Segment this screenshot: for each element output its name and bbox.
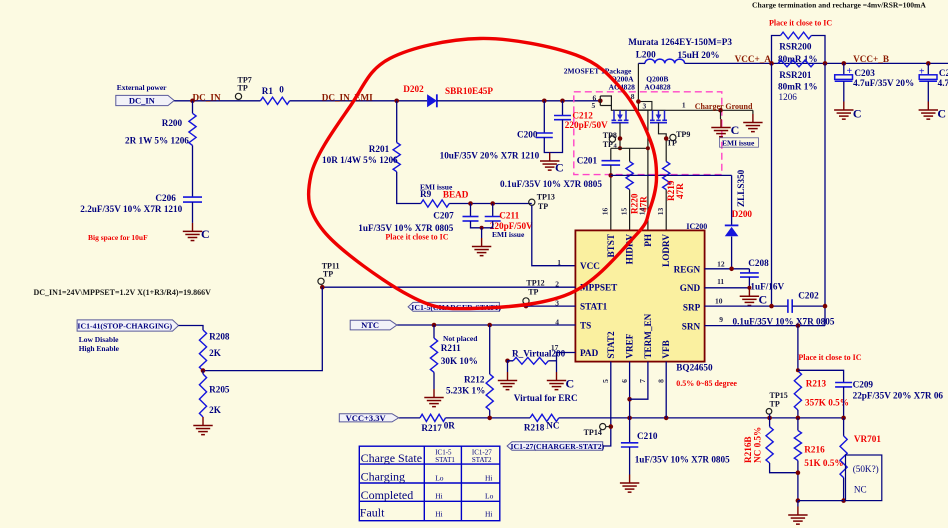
svg-text:R9: R9 (420, 189, 432, 199)
wire R9 to TP13 corner (449, 203, 532, 205)
wire R218 to FB node (559, 417, 844, 419)
table charge state (359, 446, 500, 521)
svg-text:Lo: Lo (435, 473, 444, 482)
junction C211 tap (490, 201, 495, 206)
wire D202 to MOSFETs (437, 100, 600, 102)
svg-text:R213: R213 (806, 379, 827, 389)
resistor R201 (396, 101, 398, 143)
svg-text:EMI issue: EMI issue (492, 230, 525, 239)
wire R217-R218 (446, 417, 531, 419)
wire R213 to C209 (798, 370, 844, 382)
junction TP15/FB (767, 416, 772, 421)
svg-text:0.5% 0~85 degree: 0.5% 0~85 degree (676, 379, 737, 388)
svg-text:Charge termination and rechar: Charge termination and recharge =4mv/RSR… (752, 1, 926, 10)
svg-text:16: 16 (601, 208, 610, 216)
svg-text:BTST: BTST (606, 234, 616, 258)
wire MPPSET (322, 286, 575, 288)
junction R211 (432, 323, 437, 328)
junction input to FET (598, 99, 603, 104)
transistor Q200B (652, 109, 666, 111)
svg-text:STAT1: STAT1 (580, 302, 608, 312)
svg-text:C203: C203 (854, 68, 875, 78)
resistor RSR201 (in line) (778, 60, 814, 67)
svg-text:Virtual for ERC: Virtual for ERC (514, 393, 578, 403)
junction C207 tap (468, 201, 473, 206)
ground C200/C212 net C (544, 120, 562, 153)
wire BTST column pin16 (610, 148, 612, 160)
svg-text:C201: C201 (577, 155, 598, 165)
svg-text:13: 13 (656, 208, 665, 216)
svg-text:TP9: TP9 (676, 130, 690, 139)
svg-text:Hi: Hi (485, 510, 493, 519)
svg-text:TP: TP (538, 202, 548, 211)
svg-text:Completed: Completed (361, 488, 414, 502)
svg-text:VCC+_A: VCC+_A (735, 54, 772, 64)
wire L200 left (638, 62, 645, 64)
wire TP11 down to divider (203, 287, 322, 370)
resistor R1 (260, 97, 289, 104)
svg-text:15: 15 (619, 208, 628, 216)
svg-text:VREF: VREF (625, 333, 635, 358)
resistor R218 (530, 414, 559, 421)
svg-text:TP: TP (603, 140, 613, 149)
pin 3 box (638, 102, 652, 111)
svg-text:Murata 1264EY-150M=P3: Murata 1264EY-150M=P3 (628, 37, 732, 47)
wire VFB pin8 (665, 362, 667, 418)
capacitor C204 (polarized, edge) (926, 61, 931, 66)
wire SRP (705, 305, 788, 307)
wire Q200B to Charger Ground pin 1 (666, 109, 753, 111)
wire R200 to C206 (192, 145, 194, 197)
wire DC_IN to R1 (174, 100, 260, 102)
junction ground tap (718, 108, 723, 113)
svg-text:NC: NC (546, 421, 559, 431)
ground earth EMI (752, 110, 754, 114)
svg-text:R200: R200 (162, 118, 183, 128)
svg-text:R211: R211 (441, 343, 461, 353)
svg-text:EMI issue: EMI issue (722, 138, 755, 147)
svg-text:C210: C210 (637, 431, 658, 441)
junction R216B/R216 (796, 470, 801, 475)
svg-text:Charger Ground: Charger Ground (695, 102, 753, 111)
wire R201 to R9 (397, 172, 421, 204)
junction D200/REGN (729, 267, 734, 272)
testpoint TP9 (670, 134, 676, 140)
svg-text:(50K?): (50K?) (853, 464, 879, 474)
ground FB (797, 507, 799, 516)
junction sense B/C202 (823, 304, 828, 309)
capacitor C207 (470, 204, 472, 217)
svg-text:357K 0.5%: 357K 0.5% (805, 397, 849, 407)
svg-text:10uF/35V 20% X7R 1210: 10uF/35V 20% X7R 1210 (440, 151, 540, 161)
transistor Q200A (613, 109, 627, 111)
capacitor C200 (543, 101, 545, 133)
svg-text:R_Virtual200: R_Virtual200 (512, 349, 566, 359)
svg-text:TP: TP (323, 269, 333, 278)
junction VCC+_A / RSR left (769, 61, 774, 66)
wire TP13 to VCC pin (532, 205, 576, 265)
svg-text:14: 14 (638, 208, 647, 216)
svg-text:DC_IN: DC_IN (193, 92, 221, 102)
svg-text:NC 0.5%: NC 0.5% (752, 427, 762, 463)
svg-text:AO4828: AO4828 (644, 83, 671, 92)
wire STAT2 pin5 to port (603, 362, 611, 446)
resistor R216B (769, 414, 771, 427)
svg-text:TP: TP (528, 287, 538, 296)
port IC1-5(CHARGER-STAT1) (408, 302, 499, 311)
junction VCC+_B / RSR right (823, 61, 828, 66)
junction sense A/SRP (769, 304, 774, 309)
svg-text:TP13: TP13 (537, 193, 555, 202)
svg-text:DC_IN: DC_IN (129, 96, 156, 106)
svg-text:C: C (201, 227, 210, 241)
potentiometer VR701 (843, 418, 845, 436)
ground PAD net C (556, 372, 558, 381)
capacitor C201 (602, 160, 621, 162)
svg-text:2K: 2K (209, 348, 222, 358)
svg-text:VCC+3.3V: VCC+3.3V (346, 413, 387, 423)
svg-text:10R 1/4W 5% 1206: 10R 1/4W 5% 1206 (322, 155, 398, 165)
capacitor C212 (562, 101, 564, 116)
svg-text:NC: NC (854, 484, 867, 494)
svg-text:R218: R218 (524, 422, 545, 432)
svg-text:TERM_EN: TERM_EN (643, 313, 653, 358)
wire drain interconnect (627, 109, 652, 111)
svg-text:47R: 47R (675, 183, 685, 199)
junction R213/R216 (796, 416, 801, 421)
wire bottom FB ground (798, 500, 844, 502)
svg-text:TP: TP (238, 84, 248, 93)
svg-text:STAT1: STAT1 (435, 456, 455, 464)
svg-text:10: 10 (715, 296, 723, 305)
port IC1-41(STOP-CHARGING) (77, 320, 178, 331)
svg-text:C: C (731, 123, 740, 137)
ground C210 (629, 475, 631, 484)
svg-text:8: 8 (656, 379, 665, 383)
diode D202 SBR10E45P (427, 94, 437, 107)
svg-text:R201: R201 (369, 144, 390, 154)
wire PAD (557, 353, 576, 373)
svg-text:SRP: SRP (683, 302, 701, 312)
svg-text:C200: C200 (517, 129, 538, 139)
svg-text:RSR201: RSR201 (779, 70, 812, 80)
svg-text:1uF/16V: 1uF/16V (750, 281, 784, 291)
port VCC+3.3V (339, 414, 398, 422)
svg-text:DC_IN_EMI: DC_IN_EMI (322, 92, 373, 102)
svg-text:IC1-41(STOP-CHARGING): IC1-41(STOP-CHARGING) (77, 322, 172, 331)
svg-text:2R 1W 5% 1206: 2R 1W 5% 1206 (125, 136, 189, 146)
wire Q200A source (619, 123, 621, 149)
wire LODRV column pin13 + resistor R219 (663, 162, 670, 190)
wire HIDRV column pin15 + resistor R220 (629, 148, 631, 161)
svg-text:4.7: 4.7 (938, 78, 948, 88)
svg-text:TS: TS (580, 321, 591, 331)
junction DC_IN/R200 (190, 99, 195, 104)
wire VCC+_B sense down (824, 63, 826, 325)
svg-text:C: C (566, 377, 575, 391)
junction C212 tap (560, 99, 565, 104)
resistor R208 (199, 330, 206, 371)
ground R211 (433, 372, 435, 389)
svg-text:12: 12 (717, 259, 725, 268)
resistor R205 (202, 371, 204, 374)
svg-text:C: C (853, 107, 862, 121)
wire BTST to D200 (611, 174, 732, 176)
svg-text:TP12: TP12 (526, 279, 544, 288)
junction VREF/FB (627, 416, 632, 421)
svg-text:Hi: Hi (435, 510, 443, 519)
wire TERM_EN pin7 (630, 362, 648, 400)
svg-text:C207: C207 (433, 211, 454, 221)
wire L200 drop (637, 63, 639, 101)
svg-text:BQ24650: BQ24650 (676, 363, 713, 373)
svg-text:TP: TP (667, 139, 677, 148)
svg-text:TP14: TP14 (584, 428, 602, 437)
wire GND pin (705, 287, 750, 289)
junction C200 tap (542, 99, 547, 104)
wire Q200B source (659, 123, 667, 162)
svg-text:VFB: VFB (661, 340, 671, 358)
svg-text:30K 10%: 30K 10% (441, 356, 478, 366)
svg-text:11: 11 (717, 277, 724, 286)
port DC_IN (116, 95, 174, 105)
svg-text:0.1uF/35V 10% X7R 0805: 0.1uF/35V 10% X7R 0805 (733, 316, 835, 326)
resistor R213 (794, 371, 801, 410)
svg-text:220pF/50V: 220pF/50V (565, 120, 608, 130)
resistor RSR200 (772, 36, 781, 64)
wire FB rail (399, 417, 420, 419)
svg-text:1uF/35V 10% X7R 0805: 1uF/35V 10% X7R 0805 (358, 223, 453, 233)
svg-text:C208: C208 (748, 258, 769, 268)
svg-text:VCC+_B: VCC+_B (853, 54, 889, 64)
svg-text:R217: R217 (421, 423, 442, 433)
testpoint TP8 (609, 136, 615, 142)
svg-text:1206: 1206 (779, 92, 798, 102)
wire STAT1 (499, 305, 575, 307)
wire REGN (705, 268, 750, 270)
ground C207/C211 (471, 221, 493, 228)
svg-text:C: C (759, 293, 768, 307)
svg-text:SBR10E45P: SBR10E45P (445, 86, 493, 96)
junction C209/VR701 (841, 416, 846, 421)
testpoint TP13 (529, 199, 535, 205)
svg-text:VR701: VR701 (854, 434, 881, 444)
svg-text:9: 9 (719, 315, 723, 324)
resistor R216 (797, 418, 799, 431)
svg-text:External power: External power (117, 83, 167, 92)
ground GND/C208 net C (748, 288, 750, 297)
svg-text:VCC: VCC (580, 261, 600, 271)
svg-text:GND: GND (680, 283, 701, 293)
svg-text:Hi: Hi (435, 492, 443, 501)
junction R201 tap (394, 99, 399, 104)
ground C206 net C (192, 202, 194, 223)
svg-text:Big space for 10uF: Big space for 10uF (88, 233, 148, 242)
wire TS (397, 324, 576, 326)
svg-text:4.7uF/35V 20%: 4.7uF/35V 20% (853, 78, 914, 88)
svg-text:Place it close to IC: Place it close to IC (385, 233, 448, 242)
ground R205 (202, 417, 204, 426)
resistor R211 (433, 325, 435, 338)
junction VFB/FB (664, 416, 669, 421)
wire SRN (705, 325, 825, 327)
svg-text:IC1-27(CHARGER-STAT2): IC1-27(CHARGER-STAT2) (510, 442, 604, 451)
svg-text:R216: R216 (804, 445, 825, 455)
svg-text:R208: R208 (209, 332, 230, 342)
svg-text:C2: C2 (939, 68, 948, 78)
svg-text:SRN: SRN (682, 322, 701, 332)
wire VREF pin6 (629, 362, 631, 418)
svg-text:5.23K 1%: 5.23K 1% (446, 385, 485, 395)
svg-text:High Enable: High Enable (79, 344, 120, 353)
svg-text:C202: C202 (798, 290, 819, 300)
svg-text:BEAD: BEAD (443, 190, 469, 200)
svg-text:6: 6 (620, 379, 629, 383)
svg-text:Charge State: Charge State (361, 451, 422, 465)
svg-text:3: 3 (643, 102, 647, 111)
svg-text:7: 7 (638, 379, 647, 383)
svg-text:RSR200: RSR200 (779, 42, 812, 52)
junction BTST/D200 (609, 173, 614, 178)
red emphasis ellipse (309, 38, 657, 308)
capacitor C203 (polarized) (842, 61, 847, 66)
svg-text:ZLLS350: ZLLS350 (736, 169, 746, 207)
svg-text:LODRV: LODRV (661, 234, 671, 267)
svg-text:TP8: TP8 (603, 131, 617, 140)
svg-text:PH: PH (643, 234, 653, 247)
svg-text:1: 1 (682, 101, 686, 110)
svg-text:Hi: Hi (485, 473, 493, 482)
wire SRN to R213 (797, 326, 799, 371)
svg-text:C206: C206 (155, 193, 176, 203)
wire VCC+_A sense down (771, 63, 773, 306)
svg-text:5: 5 (592, 101, 596, 110)
resistor R212 (489, 325, 491, 374)
svg-text:0: 0 (279, 85, 284, 95)
svg-text:R1: R1 (262, 86, 274, 96)
svg-text:0.1uF/35V 10% X7R 0805: 0.1uF/35V 10% X7R 0805 (500, 179, 602, 189)
wire VCC+_A rail (685, 62, 948, 64)
svg-text:IC200: IC200 (686, 222, 707, 231)
dashed EMI box (574, 92, 722, 175)
svg-text:Charging: Charging (361, 470, 405, 484)
svg-text:STAT2: STAT2 (472, 456, 492, 464)
svg-text:0R: 0R (444, 421, 456, 431)
junction divider (201, 368, 206, 373)
svg-text:Fault: Fault (360, 506, 385, 520)
svg-text:15uH 20%: 15uH 20% (678, 50, 720, 60)
capacitor C209 (835, 382, 852, 384)
svg-text:Place it close to IC: Place it close to IC (769, 19, 832, 28)
svg-text:51K 0.5%: 51K 0.5% (804, 458, 843, 468)
svg-text:C: C (555, 161, 564, 175)
note EMI issue box (720, 138, 759, 147)
svg-text:C211: C211 (499, 211, 519, 221)
resistor R200 (192, 101, 194, 114)
svg-text:C209: C209 (853, 379, 874, 389)
port IC1-27(CHARGER-STAT2) (507, 442, 603, 451)
svg-text:5: 5 (601, 379, 610, 383)
svg-text:DC_IN1=24V\MPPSET=1.2V X(1+R3/: DC_IN1=24V\MPPSET=1.2V X(1+R3/R4)=19.866… (34, 288, 212, 297)
resistor R217 (420, 414, 446, 421)
svg-text:REGN: REGN (674, 265, 701, 275)
junction R213 column/SRN (796, 323, 801, 328)
wire input step to Q200A (600, 96, 614, 110)
svg-text:STAT2: STAT2 (606, 331, 616, 359)
junction VR701/ground wire (841, 498, 846, 503)
svg-text:PAD: PAD (580, 348, 599, 358)
svg-text:2K: 2K (209, 405, 222, 415)
junction R216/ground wire (796, 498, 801, 503)
svg-text:NTC: NTC (361, 320, 379, 330)
svg-text:C: C (937, 107, 946, 121)
port NTC (350, 320, 397, 330)
svg-text:Lo: Lo (485, 492, 494, 501)
testpoint TP14 (600, 424, 606, 430)
svg-text:TP: TP (770, 399, 780, 408)
ground C (charger) (720, 110, 722, 119)
svg-text:2.2uF/35V 10% X7R 1210: 2.2uF/35V 10% X7R 1210 (80, 204, 182, 214)
svg-text:D200: D200 (732, 209, 753, 219)
junction R212 (487, 323, 492, 328)
op-amp IC200 BQ24650 body (575, 230, 704, 361)
svg-text:L200: L200 (636, 50, 656, 60)
junction R212/FB (487, 416, 492, 421)
svg-text:D202: D202 (403, 84, 424, 94)
svg-text:22pF/35V 20% X7R 06: 22pF/35V 20% X7R 06 (853, 391, 944, 401)
svg-text:1uF/35V 10% X7R 0805: 1uF/35V 10% X7R 0805 (635, 455, 730, 465)
wire C201 top to PH (611, 147, 648, 149)
wire R1 to D202 (290, 100, 428, 102)
svg-text:Place it close to IC: Place it close to IC (798, 353, 861, 362)
capacitor C206 (183, 196, 202, 198)
svg-text:80mR 1%: 80mR 1% (778, 82, 818, 92)
ground R_Virtual left (507, 372, 509, 381)
wire PH column pin14 (647, 110, 649, 230)
svg-text:1: 1 (557, 258, 561, 267)
wire port to R208 (179, 326, 204, 331)
svg-text:R212: R212 (464, 375, 485, 385)
svg-text:R205: R205 (209, 385, 230, 395)
capacitor C211 (492, 204, 494, 217)
